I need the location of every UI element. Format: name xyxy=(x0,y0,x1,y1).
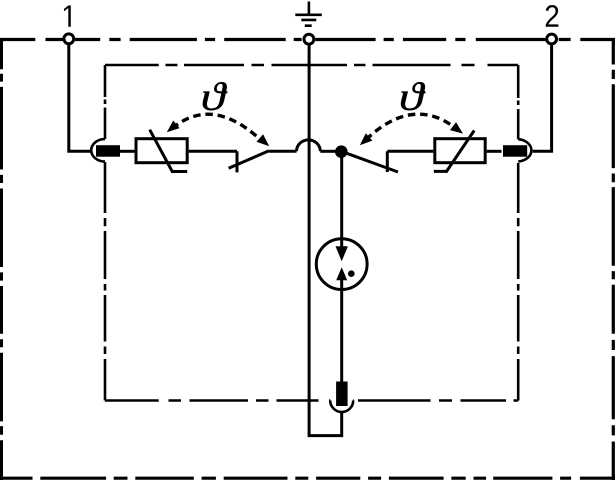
wire: ground center line down to bottom U-turn xyxy=(309,46,342,436)
wire: terminal 2 down and to right socket xyxy=(533,45,552,151)
left switch fixed contact hook xyxy=(236,151,239,172)
wire: varistor to right pin xyxy=(487,150,502,153)
terminal 2 circle xyxy=(547,34,557,44)
gas discharge tube circle xyxy=(316,239,367,290)
gas discharge tube branch wire upper xyxy=(340,158,343,248)
wire: left switch to hop xyxy=(269,150,297,153)
varistor RV2 box xyxy=(435,139,485,163)
bottom pin (black) xyxy=(336,382,348,407)
right thermal coupling dashed arc xyxy=(366,114,456,140)
left arc arrowhead to switch xyxy=(257,134,270,146)
wire: left pin to varistor xyxy=(120,150,135,153)
left arc arrowhead to varistor xyxy=(167,121,180,133)
wire: right switch to varistor xyxy=(387,150,433,153)
varistor RV1 diagonal xyxy=(150,130,188,173)
GDT trigger dot xyxy=(348,270,355,277)
wire: varistor to left switch xyxy=(189,150,237,153)
ground symbol xyxy=(295,2,322,26)
outer enclosure border bottom (dash-dot) xyxy=(0,477,615,480)
inner module border bottom (dash-dot, interrupted by socket) xyxy=(105,399,518,402)
terminal 1 label xyxy=(64,5,71,26)
gas discharge tube branch wire lower xyxy=(340,280,343,382)
outer enclosure border top (dash-dot) xyxy=(0,38,615,41)
junction node xyxy=(335,145,348,158)
inner module border top (dash-dot) xyxy=(105,64,518,67)
left thermal coupling dashed arc xyxy=(172,114,258,137)
bottom plug-in socket arc xyxy=(330,401,353,413)
right switch fixed contact hook xyxy=(386,151,389,172)
wire: terminal 1 down and to left socket xyxy=(69,45,91,151)
theta label left xyxy=(203,82,228,110)
right arc arrowhead to switch xyxy=(360,133,373,145)
right arc arrowhead to varistor xyxy=(450,122,463,134)
inner module border right (dash-dot, interrupted by socket) xyxy=(517,65,520,401)
ground terminal circle xyxy=(304,34,314,44)
inner module border left (dash-dot, interrupted by socket) xyxy=(104,65,107,401)
wire: hop to junction xyxy=(320,150,336,153)
wire hop over centre line xyxy=(297,140,321,151)
varistor RV2 diagonal xyxy=(434,131,474,173)
right switch blade xyxy=(344,152,398,172)
varistor RV1 box xyxy=(136,139,187,163)
left pin (black) xyxy=(96,145,120,157)
GDT upper arrow (down) xyxy=(336,246,348,261)
theta label right xyxy=(401,82,426,110)
outer enclosure border left (dash-dot) xyxy=(0,38,3,480)
left plug-in socket arc xyxy=(91,139,105,162)
outer enclosure border right (dash-dot) xyxy=(612,38,615,480)
terminal 1 circle xyxy=(64,34,74,44)
GDT lower arrow (up) xyxy=(336,267,347,280)
right pin (black) xyxy=(503,145,527,157)
right plug-in socket arc xyxy=(518,139,531,161)
left switch blade xyxy=(229,151,269,169)
terminal 2 label xyxy=(546,5,559,27)
